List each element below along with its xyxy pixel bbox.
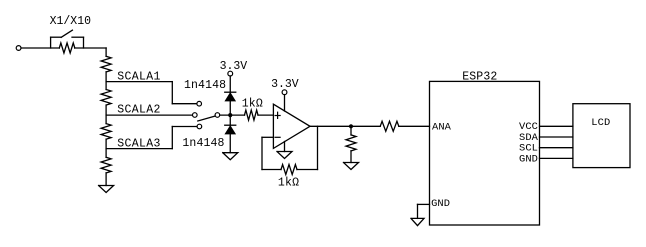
svg-text:1kΩ: 1kΩ: [278, 176, 299, 189]
svg-text:1n4148: 1n4148: [184, 79, 226, 92]
svg-text:1kΩ: 1kΩ: [242, 97, 263, 110]
svg-text:SCALA2: SCALA2: [117, 103, 161, 116]
svg-text:3.3V: 3.3V: [271, 78, 299, 91]
svg-text:LCD: LCD: [591, 117, 610, 129]
svg-text:GND: GND: [519, 153, 538, 165]
svg-text:SCALA3: SCALA3: [117, 138, 161, 151]
svg-text:GND: GND: [431, 198, 450, 210]
svg-text:ANA: ANA: [432, 121, 452, 133]
svg-text:X1/X10: X1/X10: [50, 15, 92, 28]
svg-text:3.3V: 3.3V: [220, 60, 248, 73]
svg-text:ESP32: ESP32: [462, 71, 497, 84]
svg-text:1n4148: 1n4148: [182, 137, 224, 150]
svg-text:SCALA1: SCALA1: [117, 71, 161, 84]
